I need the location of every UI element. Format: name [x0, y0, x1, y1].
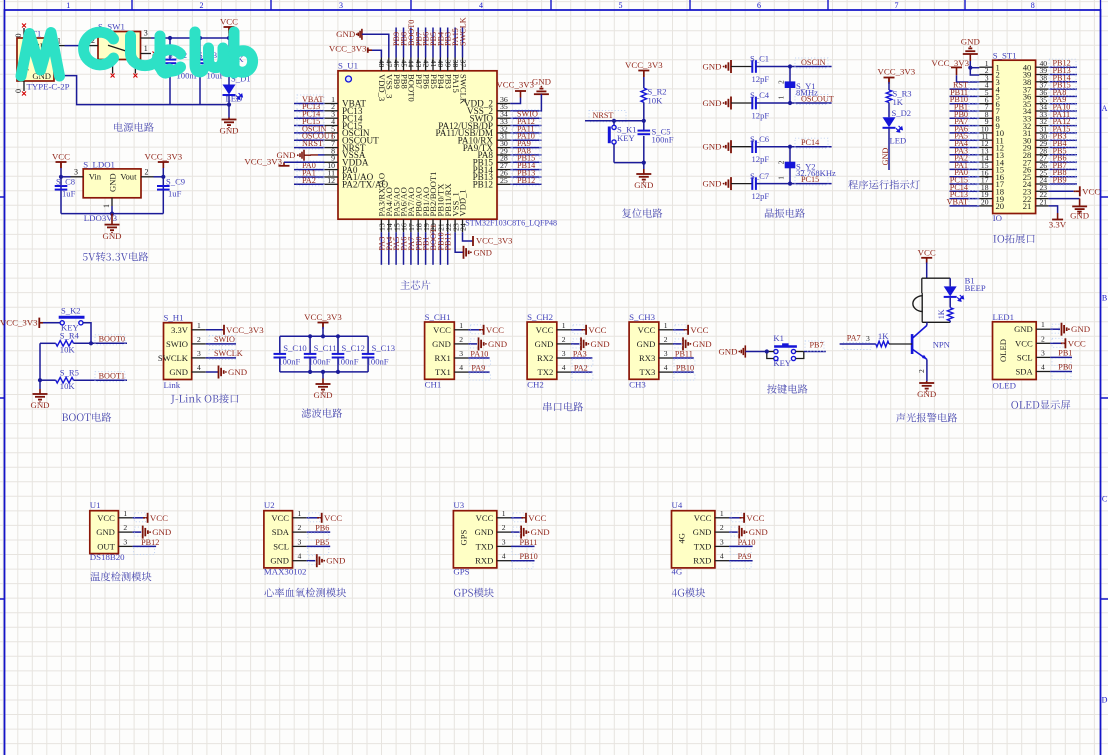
- pin 2 GND: [118, 531, 132, 533]
- caption OLED display: [1011, 401, 1018, 409]
- connector ST1 IO: [993, 60, 1036, 213]
- wire: [1049, 147, 1077, 149]
- svg-text:2: 2: [664, 335, 668, 344]
- svg-text:VCC_3V3: VCC_3V3: [625, 60, 663, 70]
- pin 17: [979, 183, 992, 185]
- pin 1 VBAT: [325, 103, 339, 105]
- pin 2 GND: [659, 343, 673, 345]
- wire: [294, 117, 325, 119]
- svg-text:0: 0: [14, 34, 23, 38]
- svg-text:K1: K1: [773, 333, 784, 343]
- junction: [308, 334, 312, 338]
- svg-text:VCC: VCC: [324, 513, 342, 523]
- svg-text:3: 3: [562, 349, 566, 358]
- svg-text:PA9: PA9: [738, 552, 752, 561]
- wire: [380, 232, 382, 265]
- pin 1 VCC: [454, 329, 468, 331]
- pin 32 PA11/USB/DM: [497, 132, 510, 134]
- pin 15 PA5/AO: [395, 219, 397, 232]
- pin 25: [1036, 176, 1049, 178]
- svg-text:SCL: SCL: [273, 541, 289, 551]
- svg-text:GND: GND: [228, 367, 247, 377]
- pin 2 GND: [454, 343, 468, 345]
- svg-text:VCC: VCC: [271, 513, 289, 523]
- svg-text:TX2: TX2: [538, 367, 554, 377]
- wire: [643, 102, 645, 121]
- wire: [613, 144, 615, 163]
- svg-text:NRST: NRST: [593, 111, 614, 120]
- caption crystal circuit: [765, 208, 774, 217]
- power VCC_3V3: [223, 325, 225, 335]
- svg-text:Vin: Vin: [89, 172, 102, 182]
- pin 19: [979, 198, 992, 200]
- wire: [162, 168, 164, 214]
- svg-text:3: 3: [459, 349, 463, 358]
- svg-text:2: 2: [1041, 334, 1045, 343]
- pin 15: [979, 168, 992, 170]
- wire: [950, 154, 980, 156]
- wire: [950, 147, 980, 149]
- ground: [478, 337, 480, 350]
- svg-text:S_CH1: S_CH1: [425, 312, 451, 322]
- ground: [111, 214, 113, 225]
- wire: [228, 64, 230, 85]
- svg-text:U4: U4: [672, 500, 683, 510]
- pin 11 PA1/AO: [325, 176, 339, 178]
- pin 17 PA7/AO: [410, 219, 412, 232]
- svg-text:4: 4: [459, 363, 463, 372]
- svg-text:0: 0: [14, 89, 23, 93]
- svg-text:VDD_1: VDD_1: [458, 189, 468, 216]
- wire: [318, 154, 325, 156]
- pin 36: [1036, 95, 1049, 97]
- junction: [89, 341, 93, 345]
- wire: [643, 136, 645, 163]
- svg-text:PB11: PB11: [520, 538, 538, 547]
- svg-text:S_CH3: S_CH3: [629, 312, 656, 322]
- svg-text:VCC: VCC: [150, 513, 168, 523]
- svg-text:GND: GND: [488, 339, 507, 349]
- pin 18: [979, 190, 992, 192]
- svg-text:NPN: NPN: [933, 340, 951, 350]
- pin 16: [979, 176, 992, 178]
- svg-text:VCC: VCC: [536, 325, 554, 335]
- pin 4 TX1: [454, 371, 468, 373]
- ground: [316, 554, 318, 567]
- module U1 DS18B20: [90, 511, 119, 554]
- wire: [888, 82, 890, 90]
- ground: [218, 366, 220, 379]
- pin 3 RX2: [557, 357, 571, 359]
- junction: [227, 36, 231, 40]
- pin 35: [1036, 103, 1049, 105]
- svg-text:S_C9: S_C9: [166, 176, 185, 186]
- wire: [154, 176, 164, 178]
- wire: [294, 132, 325, 134]
- pin 28: [1036, 154, 1049, 156]
- svg-text:VCC: VCC: [528, 513, 546, 523]
- pin 27: [1036, 161, 1049, 163]
- svg-text:BEEP: BEEP: [965, 283, 986, 293]
- wire: [957, 75, 980, 82]
- caption alarm circuit: [896, 413, 905, 422]
- svg-text:GND: GND: [531, 527, 550, 537]
- svg-text:S_C7: S_C7: [750, 171, 770, 181]
- wire: [43, 322, 60, 324]
- svg-text:RX1: RX1: [435, 353, 451, 363]
- pin 46 PB9: [395, 58, 397, 71]
- power VCC_3V3: [884, 77, 895, 79]
- wire: [395, 232, 397, 265]
- svg-text:VCC: VCC: [476, 513, 494, 523]
- svg-text:S_C12: S_C12: [342, 343, 365, 353]
- svg-text:S_C1: S_C1: [750, 54, 769, 64]
- caption key circuit: [767, 384, 777, 393]
- wire: [417, 28, 419, 58]
- capacitor C4 12pF: [731, 102, 752, 104]
- pin 1 VCC: [659, 329, 673, 331]
- pin 19 PB1/AO: [425, 219, 427, 232]
- svg-text:GND: GND: [102, 231, 121, 241]
- svg-text:2: 2: [123, 523, 127, 532]
- pin 2: [979, 74, 992, 76]
- pin 20: [979, 205, 992, 207]
- svg-text:PB10: PB10: [520, 552, 538, 561]
- svg-text:U3: U3: [453, 500, 464, 510]
- pin 10 PA0: [325, 169, 339, 171]
- wire: [294, 139, 325, 141]
- ground: [39, 389, 41, 394]
- pin 21: [1036, 205, 1049, 207]
- svg-text:DS18B20: DS18B20: [90, 552, 125, 562]
- svg-text:PA2: PA2: [574, 364, 588, 373]
- svg-text:S_U1: S_U1: [338, 61, 358, 71]
- pin 30 PA9/TX: [497, 147, 510, 149]
- svg-text:37: 37: [458, 60, 467, 68]
- pin 1 VCC: [557, 329, 571, 331]
- svg-text:VCC_3V3: VCC_3V3: [329, 43, 367, 53]
- svg-text:PA7: PA7: [847, 333, 861, 342]
- wire: [756, 66, 832, 68]
- junction: [612, 119, 616, 123]
- capacitor C6 12pF: [731, 146, 752, 148]
- wire: [756, 146, 832, 148]
- svg-text:B: B: [1102, 294, 1107, 303]
- svg-text:SDA: SDA: [1015, 367, 1033, 377]
- pin 8 VSSA: [325, 154, 339, 156]
- caption 5V to 3.3V: [83, 253, 88, 261]
- svg-text:GND: GND: [718, 347, 737, 357]
- wire: [673, 357, 694, 359]
- wire: [74, 342, 128, 344]
- ground: [1061, 323, 1063, 336]
- watermark MCUclub: [21, 33, 60, 77]
- pin 23 VSS_1: [454, 219, 456, 232]
- wire: [40, 379, 56, 381]
- pin 48 VDD_3: [380, 58, 382, 71]
- svg-text:PB11: PB11: [444, 233, 453, 251]
- svg-text:D: D: [1102, 696, 1108, 705]
- power VCC: [684, 329, 689, 331]
- junction: [788, 182, 792, 186]
- wire: [1049, 161, 1077, 163]
- svg-text:GND: GND: [532, 77, 551, 87]
- wire: [585, 120, 644, 122]
- svg-text:VCC: VCC: [690, 325, 708, 335]
- svg-text:2: 2: [502, 523, 506, 532]
- svg-text:GND: GND: [169, 367, 188, 377]
- wire: [83, 323, 91, 344]
- pin 39 PB3: [447, 58, 449, 71]
- wire: [133, 517, 146, 519]
- pin 1 VCC: [497, 517, 511, 519]
- svg-text:1: 1: [144, 44, 148, 53]
- pin 2 GND: [557, 343, 571, 345]
- pin 24 VDD_1: [462, 219, 464, 232]
- svg-text:SWIO: SWIO: [214, 335, 235, 344]
- wire: [206, 329, 223, 331]
- svg-text:PB5: PB5: [315, 538, 329, 547]
- svg-text:10K: 10K: [60, 344, 76, 354]
- svg-text:PC14: PC14: [801, 138, 819, 147]
- pin 28 PB15: [497, 161, 510, 163]
- power VCC: [740, 517, 745, 519]
- wire: [510, 183, 541, 185]
- svg-text:S_K2: S_K2: [61, 306, 81, 316]
- pin 29 PA8: [497, 154, 510, 156]
- pin 6: [979, 103, 992, 105]
- pin 1: [979, 66, 992, 68]
- pin 1 GND: [1036, 328, 1050, 330]
- svg-text:4: 4: [720, 552, 724, 561]
- pin 38 PA15: [454, 58, 456, 71]
- wire: [729, 531, 738, 533]
- ground: [969, 54, 971, 61]
- svg-text:VCC_3V3: VCC_3V3: [226, 325, 264, 335]
- wire: [613, 121, 615, 125]
- svg-text:RXD: RXD: [475, 556, 493, 566]
- wire: [439, 28, 441, 58]
- svg-text:GND: GND: [535, 339, 554, 349]
- pin 12 PA2/TX/AO: [325, 183, 339, 185]
- svg-text:GND: GND: [961, 36, 980, 46]
- svg-text:GND: GND: [219, 126, 238, 136]
- IC U1 STM32F103C8T6_LQFP48: [338, 71, 497, 219]
- wire: [309, 336, 311, 354]
- capacitor C9 1uF: [157, 185, 170, 187]
- pin 20 PB2/BOOT1: [432, 219, 434, 232]
- pin 34 SWIO: [497, 117, 510, 119]
- power VCC_3V3: [318, 322, 329, 324]
- wire: [468, 371, 489, 373]
- svg-text:S_H1: S_H1: [164, 312, 184, 322]
- svg-text:GND: GND: [749, 527, 768, 537]
- svg-text:S_CH2: S_CH2: [527, 312, 553, 322]
- wire: [362, 34, 389, 57]
- svg-text:3: 3: [502, 537, 506, 546]
- svg-text:VCC: VCC: [486, 325, 504, 335]
- wire: [1049, 139, 1077, 141]
- wire: [169, 65, 171, 105]
- pin 4 SDA: [1036, 371, 1050, 373]
- wire: [511, 517, 524, 519]
- svg-text:CH1: CH1: [425, 380, 442, 390]
- svg-text:1: 1: [197, 321, 201, 330]
- power VCC_3V3: [638, 70, 649, 72]
- svg-text:OLED: OLED: [998, 339, 1008, 362]
- svg-text:VCC: VCC: [1015, 338, 1033, 348]
- ground: [540, 93, 542, 95]
- svg-text:2: 2: [562, 335, 566, 344]
- junction: [321, 334, 325, 338]
- pin 1 VCC: [118, 517, 132, 519]
- wire: [307, 531, 331, 533]
- wire: [1049, 117, 1077, 119]
- wire: [432, 232, 434, 265]
- svg-text:GND: GND: [108, 173, 118, 192]
- wire: [1049, 66, 1077, 68]
- svg-text:MAX30102: MAX30102: [264, 566, 307, 576]
- no-connect bottom pin T1: [22, 92, 26, 96]
- svg-text:SWCLK: SWCLK: [214, 349, 243, 358]
- pin 3 OUT: [118, 545, 132, 547]
- svg-text:2: 2: [720, 523, 724, 532]
- svg-text:1: 1: [1041, 320, 1045, 329]
- wire: [60, 168, 62, 214]
- wire: [228, 38, 230, 48]
- wire: [1049, 74, 1077, 76]
- wire: [425, 232, 427, 265]
- wire: [950, 198, 980, 200]
- svg-text:21: 21: [1023, 201, 1032, 211]
- buzzer B1 BEEP: [913, 296, 922, 312]
- svg-text:S_C4: S_C4: [750, 90, 770, 100]
- svg-text:12pF: 12pF: [752, 74, 770, 84]
- wire: [510, 154, 541, 156]
- svg-text:BOOT1: BOOT1: [99, 371, 125, 380]
- pin 24: [1036, 183, 1049, 185]
- wire: [454, 28, 456, 58]
- svg-text:4: 4: [298, 552, 302, 561]
- junction: [59, 175, 63, 179]
- svg-text:NRST: NRST: [302, 139, 323, 148]
- pin 4 TX3: [659, 371, 673, 373]
- svg-text:GND: GND: [313, 390, 332, 400]
- wire: [206, 357, 236, 359]
- svg-text:100nF: 100nF: [309, 357, 331, 367]
- junction: [336, 370, 340, 374]
- wire: [950, 103, 980, 105]
- svg-text:SWCLK: SWCLK: [158, 353, 189, 363]
- svg-text:Vout: Vout: [120, 172, 137, 182]
- resistor R6 1K: [947, 308, 953, 321]
- svg-text:S_C6: S_C6: [750, 134, 770, 144]
- wire: [1049, 190, 1074, 192]
- svg-text:12pF: 12pF: [752, 110, 770, 120]
- wire: [307, 545, 331, 547]
- wire: [228, 96, 230, 118]
- caption 4G: [672, 589, 677, 597]
- pin 47 VSS_3: [388, 58, 390, 71]
- wire: [950, 161, 980, 163]
- switch SW1: [98, 32, 141, 60]
- junction: [788, 145, 792, 149]
- pin 2 SWIO: [192, 343, 206, 345]
- wire: [294, 176, 325, 178]
- svg-text:1uF: 1uF: [168, 188, 182, 198]
- junction: [336, 334, 340, 338]
- pin 9: [979, 125, 992, 127]
- wire: [673, 343, 682, 345]
- ground: [142, 526, 144, 539]
- pin 36 VDD_2: [497, 103, 510, 105]
- wire: [425, 28, 427, 58]
- wire: [511, 531, 520, 533]
- pin 32: [1036, 125, 1049, 127]
- svg-text:S_R4: S_R4: [60, 331, 80, 341]
- svg-text:1K: 1K: [937, 309, 946, 319]
- wire: [949, 278, 951, 286]
- svg-text:PB1: PB1: [1058, 348, 1072, 357]
- wire: [307, 560, 316, 562]
- svg-text:GND: GND: [702, 179, 721, 189]
- wire: [417, 232, 419, 265]
- svg-text:2: 2: [459, 335, 463, 344]
- svg-text:S_LDO1: S_LDO1: [83, 159, 115, 169]
- ground: [1079, 199, 1081, 206]
- wire: [1049, 125, 1077, 127]
- svg-text:GND: GND: [432, 339, 451, 349]
- svg-text:OLED: OLED: [993, 381, 1016, 391]
- wire: [1049, 198, 1080, 200]
- wire: [950, 88, 980, 90]
- connector CH3: [629, 322, 659, 379]
- pin 5: [979, 95, 992, 97]
- voltage regulator LDO1 LDO3V3: [83, 169, 141, 198]
- svg-text:VBAT: VBAT: [947, 197, 968, 206]
- pin 31 PA10/RX: [497, 139, 510, 141]
- wire: [39, 343, 41, 389]
- svg-text:PB9: PB9: [1053, 176, 1067, 185]
- wire: [1050, 342, 1064, 344]
- svg-text:SCL: SCL: [1017, 352, 1033, 362]
- wire: [643, 121, 645, 131]
- svg-text:S_R5: S_R5: [60, 368, 79, 378]
- svg-text:PA10: PA10: [470, 350, 488, 359]
- ground: [730, 60, 732, 73]
- svg-text:GND: GND: [475, 527, 494, 537]
- ground: [682, 337, 684, 350]
- wire: [199, 38, 201, 60]
- svg-text:4: 4: [664, 363, 668, 372]
- wire: [571, 357, 593, 359]
- pin 45 PB8: [403, 58, 405, 71]
- wire: [511, 560, 535, 562]
- svg-text:2: 2: [777, 160, 785, 164]
- pin 12: [979, 147, 992, 149]
- capacitor C8 1uF: [55, 185, 68, 187]
- wire: [322, 327, 324, 336]
- power VCC: [224, 26, 235, 28]
- svg-text:GND: GND: [1014, 324, 1033, 334]
- wire: [432, 28, 434, 58]
- ground: [730, 177, 732, 190]
- pin 4 TX2: [557, 371, 571, 373]
- svg-text:5: 5: [619, 1, 623, 10]
- wire: [949, 321, 951, 323]
- svg-text:GND: GND: [881, 148, 890, 166]
- caption filter circuit: [302, 408, 312, 417]
